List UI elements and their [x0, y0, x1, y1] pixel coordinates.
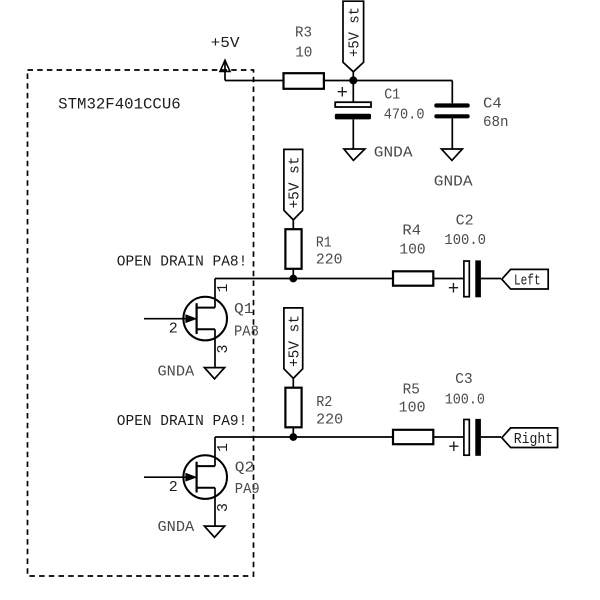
MCU outline STM32F401CCU6 (dashed box) — [28, 70, 254, 576]
svg-text:3: 3 — [215, 503, 232, 512]
svg-text:470.0: 470.0 — [384, 108, 425, 124]
resistor R5 (100) — [393, 383, 433, 444]
svg-text:GNDA: GNDA — [158, 364, 195, 381]
capacitor C3 (100.0 polarized) — [445, 372, 501, 458]
wire R3 to C4 branch — [324, 81, 452, 104]
ground GNDA (C1) — [344, 144, 413, 161]
svg-text:68n: 68n — [483, 115, 509, 131]
power flag +5V st (above R2) — [284, 308, 304, 388]
junction node (+5V st rail / C1) — [349, 76, 357, 84]
capacitor C4 (68n) — [434, 96, 508, 149]
svg-text:+5V st: +5V st — [348, 7, 364, 57]
svg-text:GNDA: GNDA — [434, 173, 473, 190]
svg-text:100.0: 100.0 — [444, 233, 486, 249]
svg-text:OPEN DRAIN PA9!: OPEN DRAIN PA9! — [117, 412, 248, 430]
svg-text:R4: R4 — [402, 224, 421, 240]
svg-text:R5: R5 — [403, 383, 420, 399]
svg-text:PA9: PA9 — [235, 482, 260, 498]
svg-text:2: 2 — [169, 320, 178, 337]
wire +5V to R3 — [225, 80, 284, 82]
ground GNDA (Q2) — [158, 519, 225, 537]
svg-text:C3: C3 — [455, 372, 473, 388]
resistor R1 (220) — [285, 229, 342, 278]
svg-text:100: 100 — [399, 242, 425, 258]
svg-text:+: + — [337, 82, 348, 104]
capacitor C2 (100.0 polarized) — [444, 213, 501, 300]
MCU label STM32F401CCU6 — [58, 95, 181, 113]
svg-text:C2: C2 — [456, 213, 474, 229]
svg-text:10: 10 — [295, 45, 312, 61]
resistor R2 (220) — [285, 388, 343, 437]
power flag +5V st (above R1) — [284, 149, 304, 229]
svg-text:R1: R1 — [316, 236, 332, 252]
ground GNDA (Q1) — [158, 364, 225, 381]
net flag Right — [502, 428, 558, 448]
svg-text:Left: Left — [514, 273, 541, 290]
power symbol +5V — [211, 35, 240, 80]
svg-text:Q2: Q2 — [235, 460, 255, 476]
svg-text:Right: Right — [514, 431, 554, 448]
capacitor C1 (470.0 polarized) — [335, 80, 425, 148]
svg-text:PA8: PA8 — [234, 325, 259, 341]
svg-text:+: + — [448, 278, 459, 300]
transistor Q2 (PA9) — [144, 437, 260, 526]
svg-text:+5V: +5V — [211, 35, 240, 52]
svg-text:1: 1 — [215, 443, 232, 452]
svg-text:+5V st: +5V st — [288, 157, 304, 209]
resistor R3 (10) — [284, 25, 324, 88]
svg-text:2: 2 — [169, 479, 178, 496]
junction node PA9 — [289, 433, 297, 441]
svg-text:+: + — [448, 436, 459, 458]
wire PA9 row — [215, 436, 464, 438]
svg-text:220: 220 — [316, 252, 343, 268]
resistor R4 (100) — [393, 224, 433, 286]
wire PA8 row — [215, 278, 464, 280]
svg-text:OPEN DRAIN PA8!: OPEN DRAIN PA8! — [117, 253, 248, 271]
svg-text:R3: R3 — [295, 25, 312, 41]
svg-text:100: 100 — [399, 401, 426, 417]
svg-text:C4: C4 — [483, 96, 502, 112]
svg-text:3: 3 — [215, 344, 232, 353]
svg-text:GNDA: GNDA — [158, 519, 195, 536]
svg-text:220: 220 — [316, 413, 343, 429]
svg-text:100.0: 100.0 — [445, 393, 485, 409]
svg-text:1: 1 — [215, 283, 232, 292]
label OPEN DRAIN PA8! — [117, 253, 248, 271]
svg-text:STM32F401CCU6: STM32F401CCU6 — [58, 95, 181, 113]
transistor Q1 (PA8) — [144, 279, 259, 368]
svg-text:+5V st: +5V st — [288, 315, 304, 367]
net flag Left — [502, 269, 548, 289]
ground GNDA (C4) — [434, 149, 473, 190]
label OPEN DRAIN PA9! — [117, 412, 248, 430]
svg-text:GNDA: GNDA — [374, 144, 413, 161]
svg-text:R2: R2 — [316, 395, 332, 411]
svg-text:C1: C1 — [384, 88, 400, 104]
svg-text:Q1: Q1 — [234, 302, 254, 318]
power flag +5V st (top) — [343, 1, 364, 80]
junction node PA8 — [289, 275, 297, 283]
